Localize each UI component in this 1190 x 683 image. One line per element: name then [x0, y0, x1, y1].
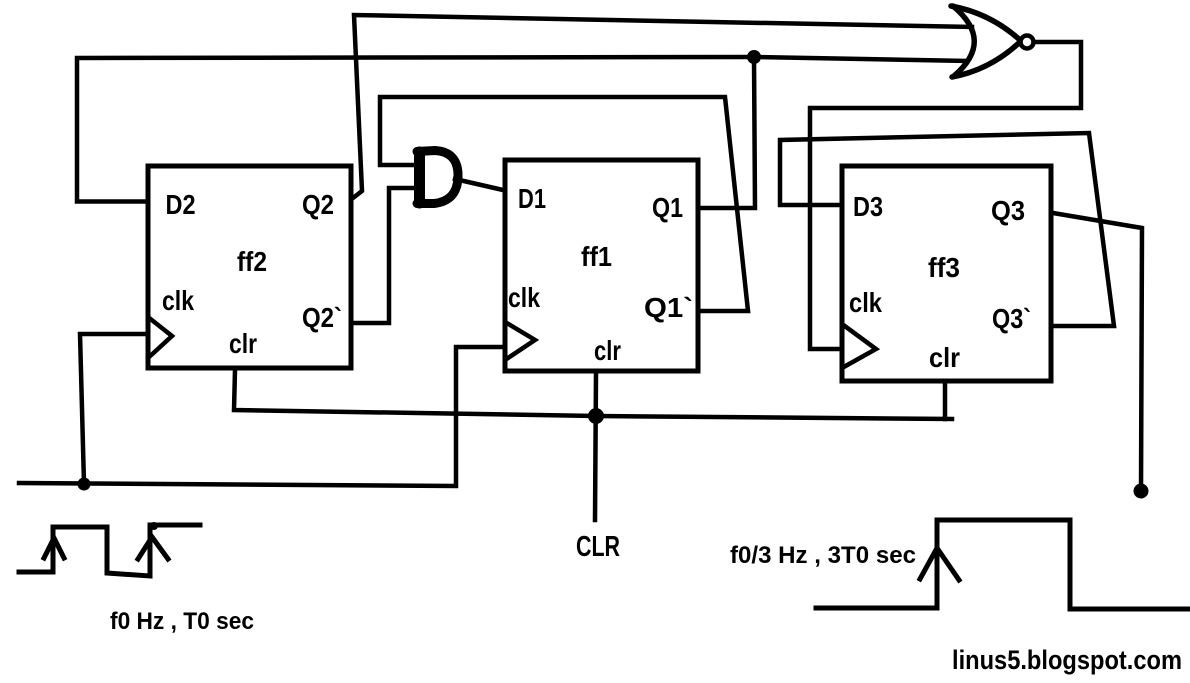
svg-text:ff2: ff2 — [237, 246, 267, 277]
svg-text:clr: clr — [929, 342, 960, 373]
svg-text:CLR: CLR — [576, 531, 620, 563]
svg-text:D1: D1 — [518, 183, 546, 214]
svg-text:ff1: ff1 — [581, 241, 612, 272]
svg-text:Q3`: Q3` — [992, 303, 1031, 334]
svg-text:clk: clk — [508, 282, 540, 313]
svg-text:Q1`: Q1` — [644, 292, 693, 323]
svg-text:clr: clr — [229, 328, 257, 359]
svg-text:D3: D3 — [853, 191, 883, 222]
svg-text:Q3: Q3 — [991, 195, 1025, 226]
svg-text:Q2`: Q2` — [302, 302, 342, 333]
svg-text:D2: D2 — [166, 189, 196, 220]
svg-text:clk: clk — [162, 285, 194, 316]
svg-text:clr: clr — [594, 335, 621, 366]
svg-text:Q1: Q1 — [652, 192, 683, 223]
svg-text:linus5.blogspot.com: linus5.blogspot.com — [952, 645, 1182, 675]
svg-text:f0/3 Hz , 3T0 sec: f0/3 Hz , 3T0 sec — [730, 542, 916, 569]
svg-text:Q2: Q2 — [302, 189, 334, 220]
svg-text:ff3: ff3 — [928, 252, 960, 283]
svg-text:f0 Hz , T0 sec: f0 Hz , T0 sec — [110, 608, 254, 635]
svg-text:clk: clk — [849, 287, 882, 318]
